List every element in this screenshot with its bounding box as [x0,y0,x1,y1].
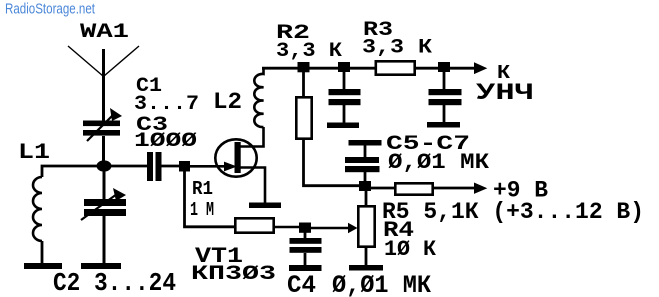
node: gate node [179,161,190,172]
svg-text:C2 3...24: C2 3...24 [53,268,176,297]
node: C5 top [338,62,350,72]
capacitor C3 [147,152,162,181]
svg-text:КП3Ø3: КП3Ø3 [191,263,276,286]
svg-text:1 M: 1 M [190,199,214,221]
antenna WA1 [68,46,139,122]
svg-text:R5 5,1К (+3...12 В): R5 5,1К (+3...12 В) [382,199,644,225]
node: antenna tank junction [97,160,112,171]
wire: drain to L2 bottom [241,127,264,147]
label C3 value 1000 [134,130,197,153]
inductor L2 [254,68,263,127]
wire: R1 to C4 node [275,226,299,229]
svg-text:УНЧ: УНЧ [476,80,534,106]
resistor R5 [371,183,474,194]
label R4 value 10 К [384,237,437,262]
ground under C5 [327,123,359,129]
svg-text:C4: C4 [287,271,316,297]
label +9 В [493,178,548,204]
ground under L1 [24,263,62,269]
wire: R2 bottom to supply node [304,140,361,186]
resistor R2 [296,72,311,139]
variable capacitor C1 [83,108,122,163]
label VT1 [195,244,243,269]
supply arrow +9V [474,183,487,194]
svg-text:3...7: 3...7 [134,93,199,116]
label C2 value C2 3...24 [53,268,176,297]
label R3 [363,19,393,42]
inductor L1 [33,177,42,263]
label C4 value 0,01 МК [332,271,431,297]
resistor R1 [235,218,273,232]
label R1 [192,178,213,200]
label L2 [213,89,242,115]
label R2 value 3,3 К [276,40,342,63]
svg-text:RadioStorage.net: RadioStorage.net [5,1,96,18]
capacitor C6 [429,72,462,122]
svg-text:L2: L2 [213,89,242,115]
label к (output) [497,62,511,84]
label C3 [136,114,168,137]
transistor VT1 [215,139,256,176]
wire: top rail right (R3 to output arrow) [416,67,474,70]
label VT1 type КП303 [191,263,276,286]
label R5 value R5 5,1К (+3...12 В) [382,199,644,225]
resistor R3 [376,61,415,74]
capacitor C5 [329,72,361,123]
svg-text:Ø,Ø1 МК: Ø,Ø1 МК [388,150,490,175]
node: C4 junction [299,223,311,233]
node: R2 top [298,62,310,72]
svg-text:Ø,Ø1 МК: Ø,Ø1 МК [332,271,431,297]
svg-text:1ØØØ: 1ØØØ [134,130,197,153]
variable capacitor C2 [81,171,126,263]
label C1 [136,75,162,98]
wire: source down [241,168,266,204]
ground under C4 [289,265,322,271]
svg-text:3,3 К: 3,3 К [362,37,432,60]
label C1 value 3...7 [134,93,199,116]
ground under R4 [349,265,383,271]
ground above C7 [349,140,382,146]
label C5-C7 [386,133,470,156]
label R2 [276,22,310,45]
wire: junction to L1 [42,166,104,177]
capacitor C4 [290,232,322,265]
label УНЧ [476,80,534,106]
wire: gate node down to R1 [185,171,235,227]
label R3 value 3,3 К [362,37,432,60]
label WA1 [80,21,129,44]
ground at VT1 source [249,203,281,209]
svg-text:WA1: WA1 [80,21,129,44]
svg-text:3,3 К: 3,3 К [276,40,342,63]
ground under C2 [81,263,121,269]
watermark RadioStorage.net [5,1,96,18]
capacitor C7 [345,145,380,182]
label R1 value 1 M [190,199,214,221]
output arrow to AF amplifier [474,62,487,74]
svg-text:1Ø К: 1Ø К [384,237,437,262]
wire: R4 wiper [311,223,358,233]
label C4 [287,271,316,297]
potentiometer R4 [358,191,374,265]
wire: top rail left (L2 top to R3) [262,67,375,70]
svg-text:L1: L1 [18,140,50,165]
label R4 [383,218,414,243]
node: output node [438,62,450,72]
wire: junction to C3 [110,165,147,168]
label L1 [18,140,50,165]
svg-text:R1: R1 [192,178,213,200]
wire: gate node to transistor gate [190,165,226,168]
ground under C6 [427,122,460,128]
wire: C3 to gate node [162,165,181,168]
label C5-C7 value 0,01 МК [388,150,490,175]
node: +9V supply node [359,181,371,191]
